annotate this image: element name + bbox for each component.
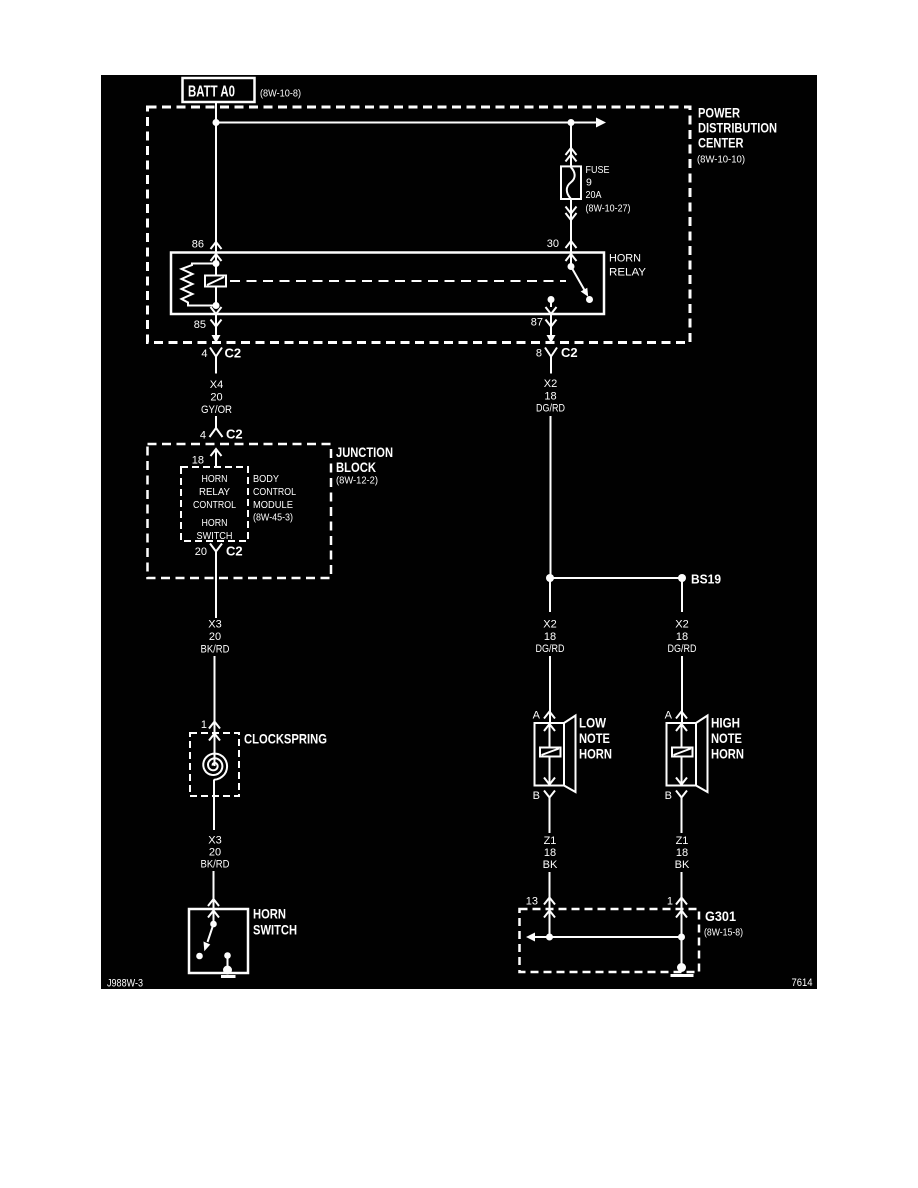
pin 85 arrow inside relay bottom	[211, 307, 222, 314]
svg-text:HORN: HORN	[202, 517, 228, 529]
pin B Y connector high horn	[676, 791, 687, 807]
relay mechanical linkage dashed line	[230, 280, 566, 282]
svg-text:20A: 20A	[586, 189, 602, 201]
svg-text:FUSE: FUSE	[586, 164, 610, 176]
svg-text:4: 4	[200, 430, 206, 442]
high note horn body	[667, 716, 708, 793]
pin 18 chevron and stem	[211, 449, 222, 467]
svg-text:1: 1	[201, 719, 207, 731]
pin 85 chevron below relay	[211, 320, 222, 327]
pin 87 arrow inside relay bottom	[546, 307, 557, 314]
arrowhead into C2 right	[547, 335, 556, 343]
svg-text:Z1: Z1	[544, 835, 557, 847]
arrowhead ground bus continues left	[526, 933, 535, 942]
connector C2 pin 4 male half	[200, 427, 243, 442]
svg-text:18: 18	[676, 847, 688, 859]
svg-text:20: 20	[210, 392, 222, 404]
svg-text:DISTRIBUTION: DISTRIBUTION	[698, 120, 777, 136]
wire pin 87 to connector C2	[550, 314, 552, 336]
svg-text:LOW: LOW	[579, 715, 607, 731]
ground G301 symbol	[671, 963, 694, 976]
node relay coil bottom junction	[213, 302, 220, 309]
wire feed bus to the right	[216, 122, 596, 124]
svg-text:BK: BK	[543, 859, 558, 871]
svg-text:(8W-12-2): (8W-12-2)	[336, 475, 378, 487]
wire label X2 18 DG/RD high horn	[668, 619, 697, 656]
svg-text:13: 13	[526, 896, 538, 908]
svg-text:HORN: HORN	[609, 253, 641, 265]
wire pin 87 inside relay	[550, 300, 552, 308]
ground horn switch	[221, 966, 236, 977]
svg-text:SWITCH: SWITCH	[253, 922, 297, 938]
svg-text:18: 18	[544, 391, 556, 403]
wire ground contact stub	[227, 956, 229, 969]
svg-text:RELAY: RELAY	[609, 267, 647, 279]
wire C2 pin 8 to BS19	[550, 416, 552, 578]
pin A chevron inside high horn	[676, 724, 687, 731]
svg-text:(8W-10-10): (8W-10-10)	[697, 154, 745, 166]
wire fuse tap down	[570, 123, 572, 167]
svg-text:X3: X3	[208, 619, 221, 631]
horn switch pin chevron outside	[208, 899, 219, 906]
node battery feed junction	[213, 119, 220, 126]
wire BS19 to high note horn upper	[681, 578, 683, 612]
wire label X3 20 BK/RD upper	[201, 619, 230, 656]
wire Z1 high to G301	[681, 872, 683, 937]
svg-text:CENTER: CENTER	[698, 135, 744, 151]
svg-text:HIGH: HIGH	[711, 715, 740, 731]
wire to ground point	[681, 937, 683, 965]
svg-text:(8W-10-8): (8W-10-8)	[260, 88, 301, 100]
svg-text:20: 20	[209, 847, 221, 859]
svg-text:(8W-15-8): (8W-15-8)	[704, 927, 743, 939]
ground bus wire inside G301	[531, 936, 682, 938]
pin 86 chevron inside relay	[211, 254, 222, 261]
svg-text:BATT A0: BATT A0	[188, 84, 235, 101]
node horn switch ground contact	[224, 952, 231, 959]
horn switch box	[189, 909, 248, 973]
splice BS19	[546, 572, 721, 587]
low note horn label	[579, 715, 612, 762]
svg-text:BK: BK	[675, 859, 690, 871]
node ground bus left junction	[546, 934, 553, 941]
wire label X4 20 GY/OR	[201, 379, 232, 416]
svg-text:NOTE: NOTE	[579, 730, 610, 746]
node relay switch pivot	[568, 263, 575, 270]
pin 30 chevron outside relay	[566, 241, 577, 248]
arrowhead feed continues	[596, 118, 606, 128]
junction block label	[336, 444, 393, 487]
node horn switch common	[210, 921, 217, 928]
svg-text:POWER: POWER	[698, 105, 740, 121]
svg-text:HORN: HORN	[253, 906, 286, 922]
body control module inner dashed box	[181, 467, 248, 541]
wire from BATT A0 down to relay coil	[215, 103, 217, 306]
svg-text:RELAY: RELAY	[199, 486, 230, 498]
svg-text:MODULE: MODULE	[253, 499, 293, 511]
svg-text:X2: X2	[675, 619, 688, 631]
relay coil resistor winding	[182, 264, 217, 306]
wire label Z1 18 BK high	[675, 835, 690, 871]
svg-text:8: 8	[536, 348, 542, 360]
clockspring dashed box	[190, 733, 239, 796]
pin 1 chevron inside	[676, 911, 687, 918]
battery feed box BATT A0	[183, 78, 255, 102]
pin 1 chevron outside	[676, 898, 687, 905]
wire pin 85 to connector C2	[215, 314, 217, 336]
wire label X2 18 DG/RD upper	[536, 378, 565, 415]
svg-text:20: 20	[209, 631, 221, 643]
connector C2 pin 4 Y symbol	[201, 346, 241, 374]
svg-text:B: B	[533, 790, 540, 802]
svg-text:G301: G301	[705, 908, 736, 924]
wire high horn to ground label	[681, 806, 683, 833]
pin B Y connector low horn	[544, 791, 555, 807]
svg-text:HORN: HORN	[579, 746, 612, 762]
horn switch blade with arrow	[204, 924, 214, 951]
wire X3 to clockspring	[214, 656, 216, 766]
svg-text:87: 87	[531, 317, 543, 329]
svg-text:85: 85	[194, 319, 206, 331]
G301 label	[704, 908, 743, 939]
pin 13 chevron outside	[544, 898, 555, 905]
connector double chevron above fuse	[566, 148, 577, 162]
clockspring pin chevron outside	[209, 722, 220, 729]
svg-text:CONTROL: CONTROL	[193, 499, 236, 511]
svg-text:1: 1	[667, 896, 673, 908]
svg-text:X4: X4	[210, 379, 223, 391]
fuse label FUSE 9 20A (8W-10-27)	[586, 164, 631, 215]
svg-text:C2: C2	[226, 544, 243, 559]
node relay switch throw contact	[586, 296, 593, 303]
wire BS19 to low note horn upper	[549, 578, 551, 612]
node ground bus right junction	[678, 934, 685, 941]
svg-text:A: A	[533, 710, 541, 722]
svg-text:DG/RD: DG/RD	[536, 643, 565, 655]
arrowhead into C2 left	[212, 335, 221, 343]
pin 30 chevron inside relay	[566, 254, 577, 261]
wire X4 into junction block	[215, 416, 217, 428]
svg-text:18: 18	[544, 631, 556, 643]
connector double chevron below fuse	[566, 207, 577, 221]
relay switch blade with arrow	[571, 267, 588, 297]
svg-text:B: B	[665, 790, 672, 802]
svg-text:86: 86	[192, 239, 204, 251]
svg-text:9: 9	[586, 177, 592, 189]
node relay pin 87 contact	[548, 296, 555, 303]
svg-text:X3: X3	[208, 835, 221, 847]
svg-text:X2: X2	[543, 619, 556, 631]
svg-text:4: 4	[201, 348, 207, 360]
svg-text:NOTE: NOTE	[711, 730, 742, 746]
svg-text:HORN: HORN	[711, 746, 744, 762]
pin A chevron high horn	[676, 712, 687, 719]
horn switch label	[253, 906, 297, 938]
svg-text:C2: C2	[225, 346, 242, 361]
pin 87 chevron below relay	[546, 320, 557, 327]
svg-text:DG/RD: DG/RD	[536, 403, 565, 415]
ground G301 dashed box	[520, 909, 700, 972]
high note horn label	[711, 715, 744, 762]
svg-text:(8W-10-27): (8W-10-27)	[586, 203, 631, 215]
connector C2 pin 8 Y symbol	[536, 345, 578, 374]
wire junction block to X3 label	[215, 560, 217, 618]
svg-text:A: A	[665, 710, 673, 722]
wire label X2 18 DG/RD low horn	[536, 619, 565, 656]
connector C2 pin 20 Y symbol	[195, 544, 243, 561]
node relay coil top junction	[213, 260, 220, 267]
svg-text:18: 18	[192, 455, 204, 467]
wire clockspring to X3 label lower	[213, 780, 215, 831]
wire Z1 low to G301	[549, 872, 551, 937]
svg-text:7614: 7614	[792, 977, 813, 989]
svg-text:(8W-45-3): (8W-45-3)	[253, 512, 293, 524]
wire X3 to horn switch	[213, 871, 215, 924]
horn switch pin chevron inside	[208, 911, 219, 918]
svg-text:20: 20	[195, 546, 207, 558]
svg-text:SWITCH: SWITCH	[197, 530, 233, 542]
node fuse tap junction	[568, 119, 575, 126]
svg-text:BK/RD: BK/RD	[201, 644, 230, 656]
power distribution center dashed box	[148, 107, 691, 343]
junction block dashed box	[148, 444, 332, 578]
svg-text:C2: C2	[226, 427, 243, 442]
pin 13 chevron inside	[544, 911, 555, 918]
body control module label	[253, 473, 296, 524]
pin A chevron inside low horn	[544, 724, 555, 731]
fuse F9 body	[561, 166, 581, 199]
svg-text:HORN: HORN	[202, 473, 228, 485]
horn relay box	[171, 253, 604, 315]
wire fuse to relay pin 30	[570, 199, 572, 267]
svg-text:CONTROL: CONTROL	[253, 486, 296, 498]
svg-text:BS19: BS19	[691, 572, 721, 587]
clockspring pin chevron inside	[209, 734, 220, 741]
wire label Z1 18 BK low	[543, 835, 558, 871]
pin A chevron low horn	[544, 712, 555, 719]
wire BS19 to high note horn lower	[681, 656, 683, 723]
horn relay control / horn switch text	[193, 473, 236, 542]
svg-text:CLOCKSPRING: CLOCKSPRING	[244, 731, 327, 747]
svg-text:30: 30	[547, 238, 559, 250]
svg-text:GY/OR: GY/OR	[201, 404, 232, 416]
wire label X3 20 BK/RD lower	[201, 835, 230, 871]
svg-text:BLOCK: BLOCK	[336, 459, 376, 475]
svg-text:BK/RD: BK/RD	[201, 859, 230, 871]
horn relay label	[609, 253, 647, 279]
svg-text:C2: C2	[561, 345, 578, 360]
node horn switch throw contact	[196, 953, 203, 960]
svg-text:J988W-3: J988W-3	[107, 978, 143, 990]
wire BS19 to low note horn lower	[549, 656, 551, 723]
svg-text:18: 18	[676, 631, 688, 643]
low note horn body	[535, 716, 576, 793]
diagram background panel	[101, 75, 817, 989]
svg-text:JUNCTION: JUNCTION	[336, 444, 393, 460]
power distribution center label	[697, 105, 777, 166]
svg-text:X2: X2	[544, 378, 557, 390]
svg-text:18: 18	[544, 847, 556, 859]
wire low horn to ground label	[549, 806, 551, 833]
svg-text:DG/RD: DG/RD	[668, 643, 697, 655]
relay coil armature symbol	[205, 276, 226, 287]
svg-text:BODY: BODY	[253, 473, 279, 485]
clockspring spiral coil	[203, 754, 227, 780]
pin 86 chevron outside relay	[211, 242, 222, 249]
svg-text:Z1: Z1	[676, 835, 689, 847]
